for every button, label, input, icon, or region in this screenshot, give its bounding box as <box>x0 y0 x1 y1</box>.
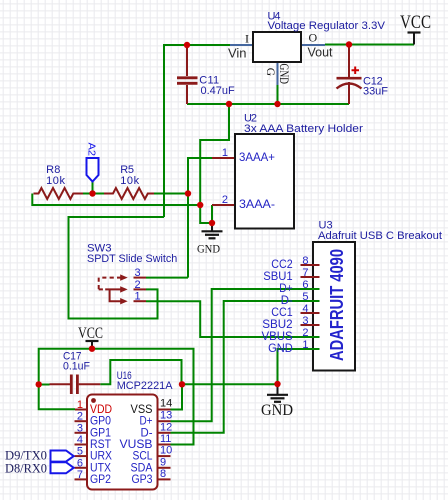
junction gnd low <box>197 202 203 208</box>
mcu U16 <box>75 395 173 490</box>
svg-text:Vin: Vin <box>228 47 247 61</box>
svg-text:D8/RX0: D8/RX0 <box>5 460 47 475</box>
svg-text:10k: 10k <box>46 175 65 187</box>
svg-text:GND: GND <box>261 402 293 419</box>
junction U2 pin2 gnd <box>209 220 215 226</box>
svg-text:2: 2 <box>302 327 308 339</box>
svg-text:MCP2221A: MCP2221A <box>117 380 173 392</box>
svg-text:Voltage Regulator 3.3V: Voltage Regulator 3.3V <box>268 20 386 32</box>
wire D plus net <box>171 289 314 421</box>
power VCC top right <box>400 12 431 45</box>
wire resistor net left <box>83 193 104 195</box>
svg-text:A2: A2 <box>85 143 97 157</box>
net flag D9/TX0 <box>5 448 74 463</box>
svg-text:G: G <box>264 68 276 76</box>
junction VCC left <box>89 346 95 352</box>
svg-text:0.47uF: 0.47uF <box>201 85 235 97</box>
svg-text:3AAA-: 3AAA- <box>239 197 275 211</box>
svg-text:2: 2 <box>77 411 83 423</box>
wire gnd drop from bus <box>200 104 229 223</box>
svg-text:VCC: VCC <box>78 325 103 342</box>
wire battery plus <box>188 158 212 278</box>
junction A2 tap <box>89 190 95 196</box>
wire U3 gnd <box>278 349 314 384</box>
wire gnd bus top <box>187 103 349 105</box>
label SW3 <box>87 242 177 265</box>
wire Vin top <box>164 45 230 217</box>
svg-text:SPDT Slide Switch: SPDT Slide Switch <box>87 253 177 265</box>
svg-text:33uF: 33uF <box>363 85 388 97</box>
wire SW3 pin1 to VBUS <box>146 301 313 337</box>
svg-text:6: 6 <box>77 457 83 469</box>
svg-text:6: 6 <box>302 279 308 291</box>
usb breakout U3 <box>262 242 356 371</box>
wire Vout to VCC <box>325 44 414 46</box>
svg-text:1: 1 <box>302 339 308 351</box>
wire D minus net <box>171 301 314 433</box>
capacitor C11 <box>177 45 235 104</box>
wire U16 VSS <box>171 384 183 409</box>
wire gnd bus bottom <box>182 383 278 385</box>
svg-text:3x AAA Battery Holder: 3x AAA Battery Holder <box>244 123 363 135</box>
junction gnd bus drop <box>226 101 232 107</box>
svg-text:1: 1 <box>222 147 228 159</box>
wire U4 G pin to bus <box>277 85 279 104</box>
resistor R8 <box>34 164 84 199</box>
svg-text:11: 11 <box>160 433 171 445</box>
svg-text:2: 2 <box>222 194 228 206</box>
label U3 <box>318 219 442 242</box>
power VCC left <box>78 325 103 349</box>
wire SW3 pin2 to Vin rail <box>69 217 165 319</box>
wire U2 pin2 drop <box>211 205 213 223</box>
wire VCC to VDD and VUSB <box>39 349 194 445</box>
svg-text:Adafruit USB C Breakout: Adafruit USB C Breakout <box>318 230 442 242</box>
svg-text:I: I <box>245 32 249 46</box>
resistor R5 <box>104 164 154 199</box>
regulator U4 <box>228 31 333 86</box>
svg-text:O: O <box>309 31 318 45</box>
label U16 <box>117 370 173 392</box>
svg-text:ADAFRUIT 4090: ADAFRUIT 4090 <box>327 249 347 361</box>
capacitor C12 polarized <box>337 45 389 105</box>
svg-text:14: 14 <box>160 398 172 410</box>
svg-text:5: 5 <box>77 446 83 458</box>
svg-text:1: 1 <box>77 399 83 411</box>
junction U3 gnd <box>274 381 280 387</box>
wire C17 left <box>39 384 50 386</box>
svg-text:7: 7 <box>302 267 308 279</box>
junction R5 right <box>185 190 191 196</box>
capacitor C17 <box>50 350 101 394</box>
svg-text:Vout: Vout <box>308 46 334 60</box>
svg-text:9: 9 <box>160 456 166 468</box>
wire C17 right to gnd <box>100 360 181 384</box>
junction C11 top <box>184 42 190 48</box>
net flag D8/RX0 <box>5 460 74 475</box>
label U4 <box>268 10 386 32</box>
svg-text:GP3: GP3 <box>132 472 153 486</box>
wire gnd low left <box>32 194 200 206</box>
ground under U3 <box>261 384 293 419</box>
svg-text:8: 8 <box>302 255 308 267</box>
junction C12 top <box>346 41 352 47</box>
wire SW3 pin3 <box>146 277 188 279</box>
svg-text:8: 8 <box>160 468 166 480</box>
switch SW3 <box>99 267 146 304</box>
svg-text:GND: GND <box>268 341 293 355</box>
svg-text:5: 5 <box>302 291 308 303</box>
svg-text:1: 1 <box>135 291 141 303</box>
svg-text:GND: GND <box>277 64 291 85</box>
battery holder U2 <box>212 134 294 229</box>
junction U4 G pin <box>274 101 280 107</box>
svg-text:0.1uF: 0.1uF <box>63 361 90 373</box>
svg-text:4: 4 <box>302 303 308 315</box>
svg-text:10: 10 <box>160 445 172 457</box>
net flag A2 <box>85 143 98 194</box>
svg-text:GP2: GP2 <box>90 472 111 486</box>
svg-text:12: 12 <box>160 421 172 433</box>
svg-text:10k: 10k <box>120 175 139 187</box>
wire resistor net right <box>154 193 188 195</box>
svg-text:2: 2 <box>135 279 141 291</box>
svg-text:13: 13 <box>160 410 172 422</box>
svg-text:3AAA+: 3AAA+ <box>239 150 275 164</box>
svg-text:3: 3 <box>135 267 141 279</box>
svg-text:7: 7 <box>77 469 83 481</box>
svg-text:3: 3 <box>77 422 83 434</box>
label U2 <box>244 112 363 135</box>
svg-text:GND: GND <box>197 241 220 255</box>
svg-text:4: 4 <box>77 434 83 446</box>
svg-text:VCC: VCC <box>400 12 431 33</box>
svg-text:3: 3 <box>302 315 308 327</box>
junction C17 left <box>36 381 42 387</box>
junction VSS gnd <box>179 381 185 387</box>
ground under U2 <box>197 223 223 255</box>
